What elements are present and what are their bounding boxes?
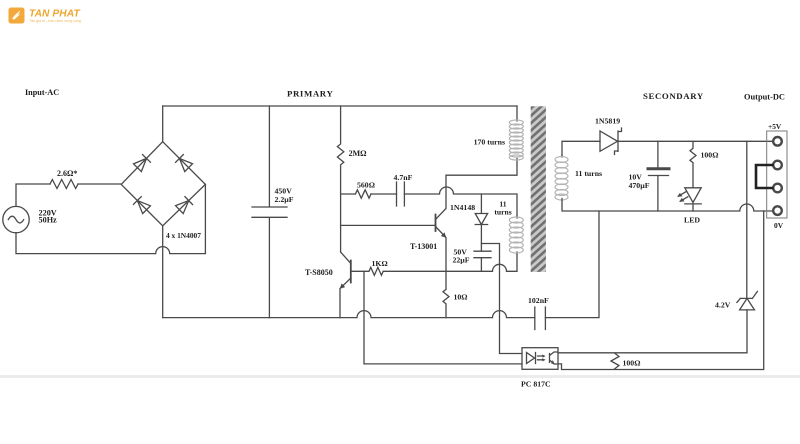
svg-text:100Ω: 100Ω <box>623 359 641 368</box>
capacitor C5 10V 470uF <box>629 141 670 211</box>
diode D6 1N5819 schottky <box>595 117 622 155</box>
diode D3 lower-left <box>133 197 150 214</box>
wire 102nF to secondary ground <box>545 211 599 318</box>
optocoupler U1 PC817C <box>521 348 558 389</box>
svg-text:LED: LED <box>684 216 700 225</box>
svg-text:170 turns: 170 turns <box>474 138 505 147</box>
svg-text:2.2µF: 2.2µF <box>275 195 294 204</box>
wire 0V feedback vertical <box>558 211 764 370</box>
wire +5V rail <box>618 140 772 142</box>
svg-text:Output-DC: Output-DC <box>744 93 785 102</box>
resistor R5 10 ohm <box>443 271 468 317</box>
LED indicator <box>678 188 701 225</box>
primary winding 170 turns <box>509 106 523 160</box>
Tan Phat logo <box>9 8 81 24</box>
wire top rail <box>163 105 517 107</box>
svg-text:560Ω: 560Ω <box>357 181 375 190</box>
wire feedback from base node down to opto pin2 <box>364 271 522 364</box>
secondary winding 11 turns <box>555 155 568 200</box>
wire secondary top <box>562 141 600 155</box>
svg-text:4.7nF: 4.7nF <box>394 173 413 182</box>
svg-text:1KΩ: 1KΩ <box>372 259 388 268</box>
svg-text:PRIMARY: PRIMARY <box>287 89 333 99</box>
resistor R2 2M ohm <box>337 106 367 252</box>
wire resistor to bridge left vertex <box>78 183 121 185</box>
wire 560 ohm branch left lead <box>341 193 356 195</box>
capacitor C4 102nF Y-cap <box>528 296 549 330</box>
zener diode 4.2V <box>715 291 757 352</box>
resistor 2.6 ohm <box>50 169 78 189</box>
wire feedback upper (zener to opto collector) <box>558 352 747 354</box>
svg-text:2.6Ω*: 2.6Ω* <box>57 169 77 178</box>
svg-text:T-13001: T-13001 <box>410 242 437 251</box>
faint artifact band <box>0 375 800 378</box>
wire 4.7nF to aux winding top with hop over collector <box>404 187 517 216</box>
diode D4 lower-right <box>176 197 193 214</box>
wire T-13001 base wire <box>341 224 436 226</box>
wire primary ground rail with hops <box>163 311 535 318</box>
transistor Q2 T-S8050 <box>305 252 351 318</box>
svg-text:+5V: +5V <box>768 122 782 131</box>
output connector <box>756 122 787 230</box>
wire bridge top vertex to top rail <box>162 106 164 142</box>
svg-text:4.2V: 4.2V <box>715 301 731 310</box>
capacitor C2 4.7nF <box>394 173 413 206</box>
AC source V1 <box>3 206 57 232</box>
wire AC bottom return with hop <box>16 184 205 253</box>
resistor R7 100 ohm feedback <box>611 353 640 369</box>
capacitor C1 450V 2.2uF <box>252 106 294 318</box>
svg-text:470µF: 470µF <box>629 181 650 190</box>
wire bridge bottom vertex down to ground rail <box>162 226 164 318</box>
resistor R6 100 ohm secondary <box>690 141 718 188</box>
wire base node to aux winding bottom with hop <box>383 254 517 271</box>
wire 560 to 4.7nF <box>371 193 397 195</box>
diode D5 1N4148 <box>450 194 488 251</box>
svg-text:22µF: 22µF <box>453 256 470 265</box>
transistor Q1 T-13001 <box>410 160 517 271</box>
svg-text:turns: turns <box>494 208 511 217</box>
capacitor C3 50V 22uF <box>453 248 492 272</box>
resistor R4 1K ohm <box>351 259 388 275</box>
svg-text:Input-AC: Input-AC <box>25 88 59 97</box>
svg-text:Tao gia tri - trao niem vung: Tao gia tri - trao niem vung cong <box>30 19 81 23</box>
svg-text:PC 817C: PC 817C <box>521 380 551 389</box>
diode bridge frame <box>121 142 205 226</box>
diode D2 upper-right <box>176 155 193 172</box>
svg-text:4 x 1N4007: 4 x 1N4007 <box>166 231 201 240</box>
svg-text:TAN PHAT: TAN PHAT <box>29 9 80 20</box>
svg-text:11 turns: 11 turns <box>575 169 602 178</box>
svg-text:2MΩ: 2MΩ <box>349 149 368 158</box>
aux winding 11 turns <box>509 216 523 254</box>
svg-text:SECONDARY: SECONDARY <box>643 91 704 101</box>
wire zener branch from +5V rail down <box>746 141 748 298</box>
svg-text:50Hz: 50Hz <box>39 216 58 225</box>
svg-text:1N4148: 1N4148 <box>450 203 475 212</box>
wire AC top lead <box>16 184 50 206</box>
svg-text:102nF: 102nF <box>528 296 549 305</box>
wire 1N4148 cathode node to opto pin1 <box>481 244 522 354</box>
wire secondary ground rail with hop <box>562 200 772 211</box>
diode D1 upper-left <box>133 155 150 172</box>
svg-text:1N5819: 1N5819 <box>595 117 620 126</box>
transformer core <box>531 106 546 272</box>
svg-text:T-S8050: T-S8050 <box>305 268 333 277</box>
svg-text:100Ω: 100Ω <box>701 151 719 160</box>
resistor R3 560 ohm <box>355 181 375 199</box>
svg-text:10Ω: 10Ω <box>454 293 468 302</box>
svg-text:0V: 0V <box>774 221 784 230</box>
